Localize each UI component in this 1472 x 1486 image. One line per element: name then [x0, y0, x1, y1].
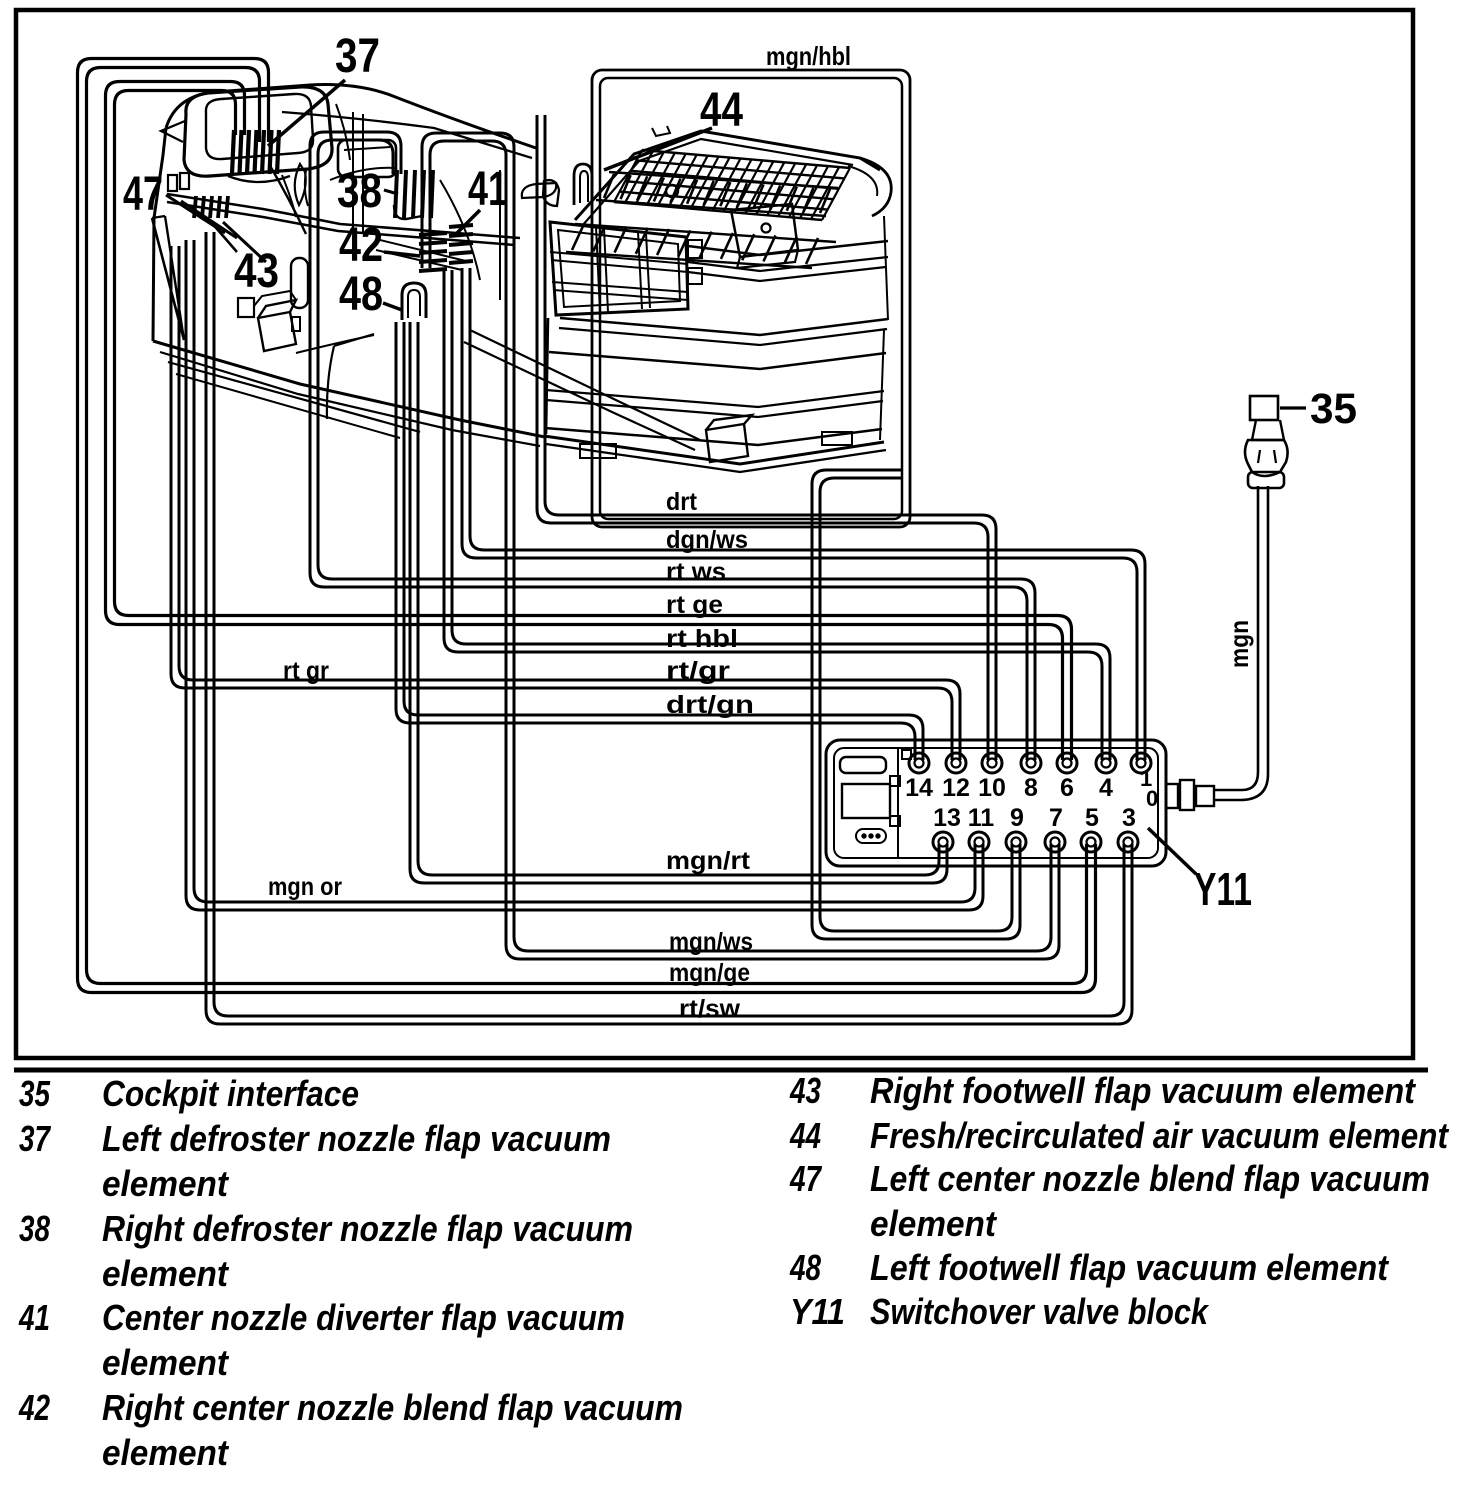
- callout 48: [339, 268, 402, 321]
- label mgn/hbl: [766, 41, 851, 71]
- svg-text:mgn: mgn: [1224, 620, 1254, 668]
- legend rule: [14, 1068, 1428, 1073]
- svg-text:Right center nozzle blend flap: Right center nozzle blend flap vacuum: [102, 1387, 683, 1428]
- svg-text:element: element: [102, 1253, 230, 1294]
- svg-text:Left center nozzle blend flap: Left center nozzle blend flap vacuum: [870, 1158, 1430, 1199]
- fresh air / recirculated air unit (element 44): [543, 126, 891, 472]
- wire label rt/sw: [679, 995, 741, 1023]
- svg-text:41: 41: [468, 163, 508, 216]
- svg-text:7: 7: [1049, 804, 1063, 832]
- label Y11: [1148, 828, 1252, 915]
- box mgn/hbl around fresh air unit: [592, 70, 910, 527]
- svg-text:mgn/ws: mgn/ws: [669, 928, 753, 956]
- svg-text:9: 9: [1010, 804, 1024, 832]
- svg-text:Right defroster nozzle flap va: Right defroster nozzle flap vacuum: [102, 1208, 633, 1249]
- svg-text:8: 8: [1024, 774, 1038, 802]
- legend: [18, 1070, 1450, 1473]
- svg-text:mgn/hbl: mgn/hbl: [766, 41, 851, 71]
- hose rt ge (port 6): [106, 82, 1072, 761]
- svg-text:3: 3: [1122, 804, 1136, 832]
- wire label drt/gn: [666, 691, 754, 719]
- svg-text:47: 47: [789, 1158, 822, 1199]
- label mgn (rotated): [1224, 620, 1254, 668]
- svg-text:element: element: [102, 1163, 230, 1204]
- svg-text:48: 48: [789, 1247, 821, 1288]
- hose mgn/rt (port 13): [410, 322, 947, 883]
- pin 11: [968, 804, 995, 832]
- pin 9: [1010, 804, 1024, 832]
- svg-text:element: element: [102, 1432, 230, 1473]
- svg-text:rt gr: rt gr: [283, 657, 329, 685]
- svg-text:42: 42: [339, 219, 383, 272]
- outer frame: [16, 10, 1413, 1058]
- svg-text:44: 44: [789, 1115, 821, 1156]
- svg-text:43: 43: [234, 245, 279, 298]
- svg-text:Left defroster nozzle flap vac: Left defroster nozzle flap vacuum: [102, 1118, 611, 1159]
- svg-text:0: 0: [1146, 786, 1158, 811]
- pin 4: [1099, 774, 1113, 802]
- hose mgn or (port 11): [186, 240, 983, 910]
- svg-text:43: 43: [789, 1070, 821, 1111]
- svg-text:12: 12: [942, 774, 970, 802]
- svg-text:drt: drt: [666, 488, 698, 516]
- svg-text:rt/sw: rt/sw: [679, 995, 741, 1023]
- svg-text:38: 38: [19, 1208, 50, 1249]
- svg-text:Cockpit interface: Cockpit interface: [102, 1073, 359, 1114]
- hose rt hbl (port 4): [444, 270, 1110, 760]
- svg-text:rt hbl: rt hbl: [666, 625, 738, 653]
- valve block output nipple: [1166, 780, 1214, 810]
- svg-text:35: 35: [19, 1073, 51, 1114]
- svg-text:5: 5: [1085, 804, 1099, 832]
- svg-text:drt/gn: drt/gn: [666, 691, 754, 719]
- svg-text:Fresh/recirculated air vacuum: Fresh/recirculated air vacuum element: [870, 1115, 1450, 1156]
- pin 14: [905, 774, 933, 802]
- pin 7: [1049, 804, 1063, 832]
- wire label rt/gr: [666, 657, 730, 685]
- connector 35 (cockpit interface): [1245, 396, 1288, 488]
- svg-text:Center nozzle diverter flap va: Center nozzle diverter flap vacuum: [102, 1297, 625, 1338]
- hose element 44 to port 9: [812, 470, 1020, 939]
- wire label mgn/ge: [669, 959, 750, 987]
- hose rt/gr (port 12): [171, 246, 960, 760]
- wire label rt hbl: [666, 625, 738, 653]
- pin 8: [1024, 774, 1038, 802]
- svg-text:Y11: Y11: [1194, 863, 1252, 915]
- svg-text:37: 37: [19, 1118, 52, 1159]
- hose rt ws (port 8): [310, 132, 1035, 760]
- pin 6: [1060, 774, 1074, 802]
- svg-text:47: 47: [123, 168, 163, 221]
- svg-text:mgn/rt: mgn/rt: [666, 847, 751, 875]
- wire label rt ge: [666, 591, 723, 619]
- svg-text:6: 6: [1060, 774, 1074, 802]
- HVAC unit housing: [152, 85, 700, 450]
- svg-text:Right footwell flap vacuum ele: Right footwell flap vacuum element: [870, 1070, 1417, 1111]
- callout 41: [456, 163, 508, 234]
- hose mgn/ge (port 5): [78, 59, 1096, 993]
- svg-text:11: 11: [968, 804, 995, 832]
- callout 38: [337, 165, 382, 218]
- svg-text:mgn/ge: mgn/ge: [669, 959, 750, 987]
- svg-text:13: 13: [933, 804, 961, 832]
- svg-text:37: 37: [335, 30, 380, 83]
- callout 43: [234, 245, 279, 298]
- callout 42: [339, 219, 420, 272]
- svg-text:42: 42: [18, 1387, 50, 1428]
- svg-text:rt ws: rt ws: [666, 558, 726, 586]
- pin 5: [1085, 804, 1099, 832]
- hose drt (port 10): [537, 115, 996, 760]
- hose mgn/ws (port 7): [422, 133, 1059, 959]
- wire label mgn or: [268, 873, 342, 901]
- svg-text:element: element: [102, 1342, 230, 1383]
- svg-text:Left footwell flap vacuum elem: Left footwell flap vacuum element: [870, 1247, 1390, 1288]
- svg-text:41: 41: [18, 1297, 50, 1338]
- label 35: [1280, 385, 1357, 433]
- svg-text:38: 38: [337, 165, 382, 218]
- pin 13: [933, 804, 961, 832]
- wire label dgn/ws: [666, 526, 748, 554]
- svg-text:Switchover valve block: Switchover valve block: [870, 1291, 1210, 1332]
- wire label mgn/rt: [666, 847, 751, 875]
- wire label drt: [666, 488, 698, 516]
- pin 3: [1122, 804, 1136, 832]
- hose dgn/ws (port right): [462, 268, 1145, 760]
- svg-text:10: 10: [978, 774, 1006, 802]
- wire label rt ws: [666, 558, 726, 586]
- svg-text:Y11: Y11: [790, 1291, 845, 1332]
- svg-text:dgn/ws: dgn/ws: [666, 526, 748, 554]
- pin 1: [1140, 766, 1158, 811]
- svg-text:14: 14: [905, 774, 933, 802]
- svg-text:element: element: [870, 1203, 998, 1244]
- callout 37: [268, 30, 380, 146]
- svg-text:35: 35: [1310, 385, 1357, 433]
- svg-text:rt/gr: rt/gr: [666, 657, 730, 685]
- callout 47: [123, 168, 163, 221]
- svg-text:rt ge: rt ge: [666, 591, 723, 619]
- hose drt/gn (port 14): [396, 322, 923, 760]
- wire label mgn/ws: [669, 928, 753, 956]
- svg-text:48: 48: [339, 268, 383, 321]
- hose rt/sw (port 3): [206, 232, 1132, 1024]
- wire label rt gr: [283, 657, 329, 685]
- pin 10: [978, 774, 1006, 802]
- hose mgn to cockpit interface: [1214, 486, 1268, 800]
- switchover valve block Y11: [826, 740, 1166, 866]
- svg-text:4: 4: [1099, 774, 1113, 802]
- callout 44: [604, 84, 743, 170]
- pin 12: [942, 774, 970, 802]
- svg-text:mgn or: mgn or: [268, 873, 342, 901]
